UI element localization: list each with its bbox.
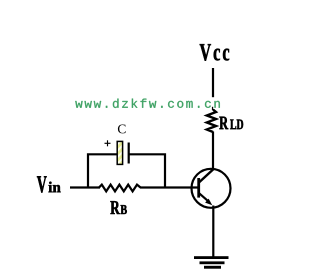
ground bar 2 — [200, 261, 225, 264]
capacitor C plus sign — [105, 142, 111, 144]
resistor RLD — [207, 110, 216, 133]
label Vcc — [200, 44, 229, 61]
wire emitter to ground — [212, 206, 214, 258]
watermark www.dzkfw.com.cn halo — [204, 97, 220, 107]
transistor Q1 emitter diagonal — [199, 193, 209, 202]
resistor RB — [99, 185, 141, 192]
label Vin — [37, 176, 47, 192]
watermark www.dzkfw.com.cn — [75, 99, 220, 108]
label RB — [110, 201, 119, 214]
label RLD — [219, 117, 228, 129]
wire bypass loop left — [88, 154, 118, 188]
transistor Q1 base bar — [197, 178, 200, 198]
transistor Q1 collector diagonal — [199, 169, 214, 183]
transistor Q1 emitter arrowhead — [205, 199, 212, 206]
wire bypass loop right — [128, 154, 165, 188]
capacitor C left plate — [117, 141, 122, 164]
label C — [118, 125, 126, 134]
capacitor C right plate — [128, 143, 130, 164]
wire Vin to RB — [70, 186, 100, 188]
ground bar 1 — [194, 256, 229, 259]
ground bar 3 — [204, 266, 221, 269]
wire RLD to collector — [212, 132, 214, 171]
wire RB to base — [140, 186, 198, 188]
transistor Q1 circle — [192, 169, 231, 208]
wire Vcc to RLD — [212, 68, 214, 110]
